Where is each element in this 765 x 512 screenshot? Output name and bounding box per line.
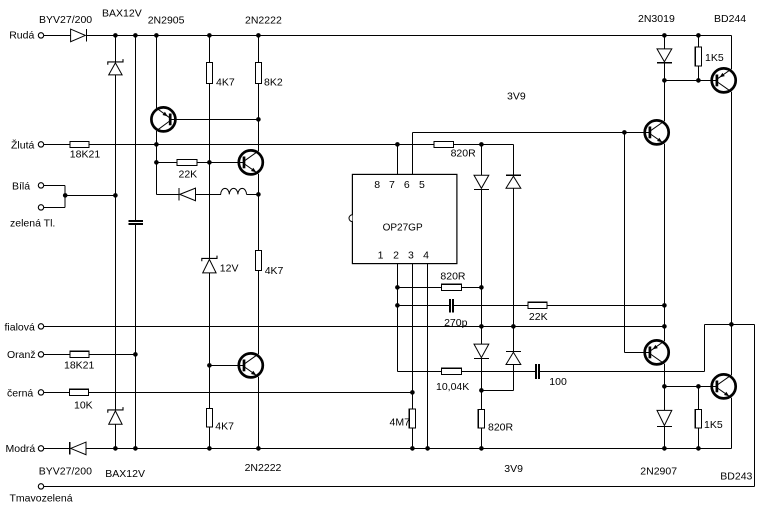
svg-text:6: 6 [404,179,410,191]
svg-text:820R: 820R [488,422,514,434]
svg-text:OP27GP: OP27GP [383,223,423,234]
svg-text:5: 5 [419,179,425,191]
svg-text:2N2222: 2N2222 [245,15,282,27]
svg-text:1: 1 [378,250,384,262]
svg-text:3V9: 3V9 [504,463,523,475]
svg-text:4K7: 4K7 [216,77,235,89]
svg-text:Žlutá: Žlutá [11,139,35,152]
svg-text:270p: 270p [444,317,468,329]
svg-text:4M7: 4M7 [390,416,411,428]
svg-text:černá: černá [7,388,33,400]
svg-text:22K: 22K [529,311,548,323]
svg-text:7: 7 [389,179,395,191]
svg-text:3V9: 3V9 [507,91,526,103]
svg-text:12V: 12V [220,263,239,275]
svg-text:2: 2 [393,250,399,262]
svg-text:820R: 820R [440,271,466,283]
svg-text:8: 8 [374,179,380,191]
svg-text:2N2905: 2N2905 [148,15,185,27]
svg-text:820R: 820R [451,148,477,160]
svg-text:8K2: 8K2 [264,77,283,89]
svg-text:10K: 10K [74,399,93,411]
svg-text:100: 100 [549,376,567,388]
svg-text:18K21: 18K21 [70,149,101,161]
svg-text:BAX12V: BAX12V [105,468,145,480]
svg-text:Oranž: Oranž [7,349,36,361]
svg-text:1K5: 1K5 [705,52,724,64]
svg-text:Rudá: Rudá [9,30,34,42]
svg-text:4: 4 [423,250,429,262]
svg-text:zelená Tl.: zelená Tl. [10,218,55,230]
svg-text:BAX12V: BAX12V [102,7,142,19]
svg-text:Bílá: Bílá [12,181,30,193]
svg-text:BYV27/200: BYV27/200 [39,14,92,26]
svg-text:Tmavozelená: Tmavozelená [10,493,73,505]
svg-text:2N3019: 2N3019 [638,13,675,25]
svg-text:22K: 22K [179,168,198,180]
svg-text:2N2222: 2N2222 [245,462,282,474]
svg-text:3: 3 [408,250,414,262]
svg-text:18K21: 18K21 [64,360,95,372]
svg-text:BYV27/200: BYV27/200 [39,466,92,478]
svg-text:4K7: 4K7 [265,265,284,277]
svg-text:1K5: 1K5 [704,419,723,431]
svg-text:Modrá: Modrá [6,443,36,455]
svg-text:BD243: BD243 [720,471,752,483]
svg-text:BD244: BD244 [714,13,746,25]
svg-text:fialová: fialová [5,322,36,334]
svg-text:4K7: 4K7 [215,421,234,433]
svg-text:10,04K: 10,04K [436,381,469,393]
svg-text:2N2907: 2N2907 [640,466,677,478]
